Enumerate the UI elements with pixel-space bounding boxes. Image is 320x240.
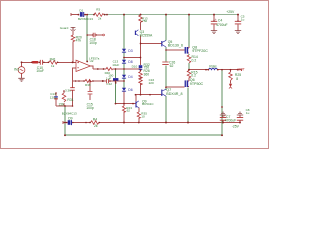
svg-text:10uF: 10uF xyxy=(36,69,44,73)
svg-text:62: 62 xyxy=(127,108,131,112)
svg-text:D4: D4 xyxy=(128,75,132,79)
svg-text:2k: 2k xyxy=(94,124,98,128)
svg-text:100p: 100p xyxy=(86,106,94,110)
svg-text:+25V: +25V xyxy=(226,10,235,14)
svg-text:1u: 1u xyxy=(246,111,250,115)
svg-text:8: 8 xyxy=(236,77,238,81)
svg-text:D8: D8 xyxy=(128,60,132,64)
svg-text:0.2: 0.2 xyxy=(192,59,197,63)
svg-text:D9: D9 xyxy=(68,117,72,121)
svg-text:R41: R41 xyxy=(50,57,56,61)
svg-text:D10: D10 xyxy=(132,65,138,69)
svg-text:750: 750 xyxy=(142,19,147,23)
svg-text:R31: R31 xyxy=(67,98,73,102)
svg-text:47k: 47k xyxy=(76,39,82,43)
svg-text:D6: D6 xyxy=(128,88,132,92)
svg-text:R39: R39 xyxy=(85,83,91,87)
svg-text:+: + xyxy=(215,18,217,22)
svg-text:D1: D1 xyxy=(79,8,83,12)
svg-text:22k: 22k xyxy=(59,102,65,106)
svg-text:IN1: IN1 xyxy=(14,68,19,72)
svg-text:10: 10 xyxy=(141,115,145,119)
svg-text:Rdel: Rdel xyxy=(209,65,216,69)
svg-text:62: 62 xyxy=(170,64,174,68)
svg-text:3.3k: 3.3k xyxy=(65,89,71,93)
svg-text:U2: U2 xyxy=(90,59,94,63)
svg-text:100p: 100p xyxy=(89,41,97,45)
svg-text:120p: 120p xyxy=(50,96,57,100)
svg-text:220: 220 xyxy=(149,81,154,85)
svg-text:R3: R3 xyxy=(96,8,100,12)
svg-text:2k: 2k xyxy=(98,17,102,21)
svg-text:360: 360 xyxy=(144,72,150,76)
svg-text:C12: C12 xyxy=(106,82,112,86)
svg-text:R4: R4 xyxy=(93,118,97,122)
svg-text:+: + xyxy=(224,114,226,118)
svg-text:10uF: 10uF xyxy=(112,63,119,67)
svg-text:1k: 1k xyxy=(51,64,55,68)
svg-text:4700uF: 4700uF xyxy=(225,119,236,123)
svg-text:1uF: 1uF xyxy=(106,76,111,80)
svg-text:-25V: -25V xyxy=(232,124,240,128)
svg-text:D3: D3 xyxy=(128,49,132,53)
svg-text:9TP50C: 9TP50C xyxy=(190,82,204,86)
svg-text:1u: 1u xyxy=(241,17,245,21)
svg-text:BC541C: BC541C xyxy=(142,102,154,106)
svg-text:4700uF: 4700uF xyxy=(216,23,227,27)
svg-text:BDX4R_8: BDX4R_8 xyxy=(166,92,182,96)
svg-text:BZX84C13: BZX84C13 xyxy=(78,17,93,21)
svg-text:OUT: OUT xyxy=(237,68,245,72)
svg-text:BD139_6: BD139_6 xyxy=(168,44,183,48)
svg-text:C4: C4 xyxy=(218,19,222,23)
svg-text:BZX84C13: BZX84C13 xyxy=(62,111,77,115)
svg-text:9TPF20C: 9TPF20C xyxy=(192,49,208,53)
svg-text:0.2: 0.2 xyxy=(191,74,196,78)
svg-text:BC559A: BC559A xyxy=(140,33,153,37)
svg-text:Guard: Guard xyxy=(60,26,69,30)
